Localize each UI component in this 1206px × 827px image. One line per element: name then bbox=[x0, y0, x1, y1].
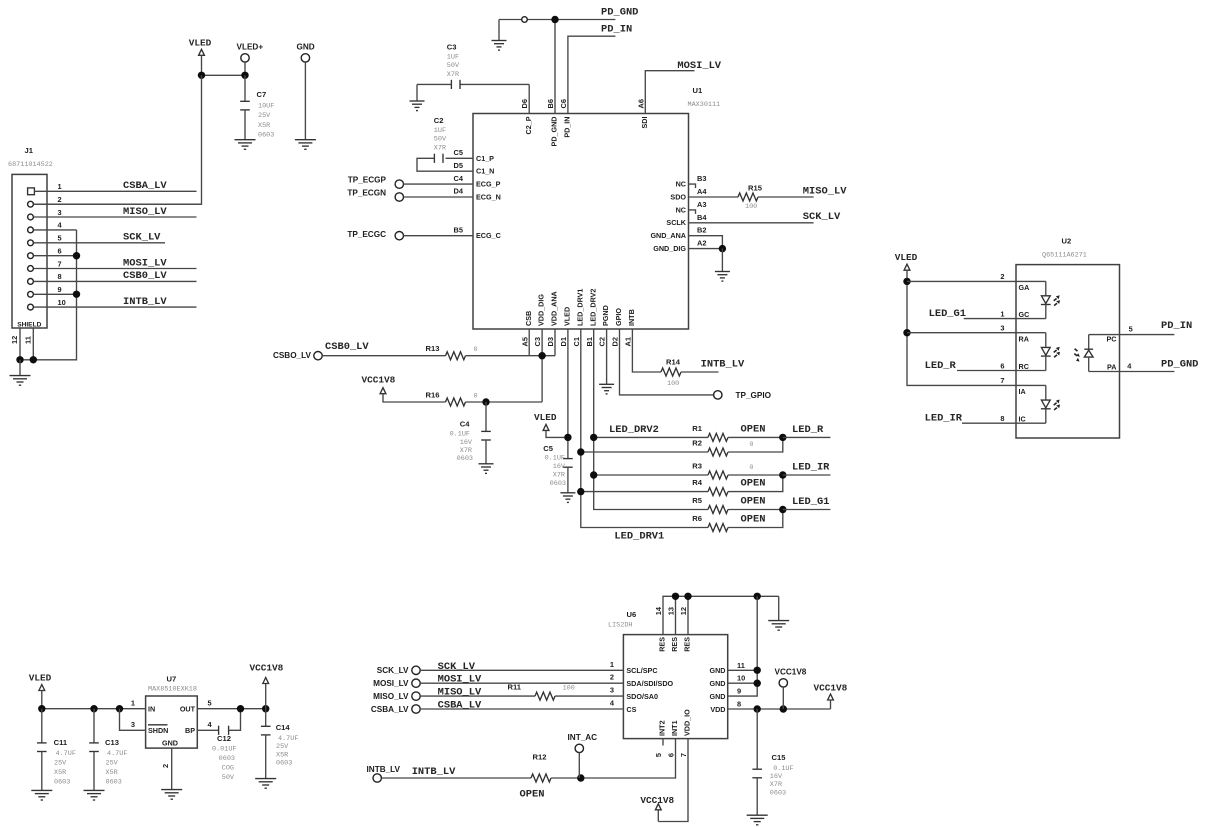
resistor R2 bbox=[708, 448, 728, 456]
junction (gnd bus top) bbox=[754, 593, 761, 600]
svg-text:C1_P: C1_P bbox=[476, 154, 494, 163]
svg-text:2: 2 bbox=[610, 673, 614, 682]
svg-text:VLED: VLED bbox=[534, 412, 557, 423]
capacitor C12 bbox=[218, 726, 220, 735]
svg-text:SDO/SA0: SDO/SA0 bbox=[626, 692, 658, 701]
wire pin6 INT1 bbox=[581, 739, 676, 778]
wire J1 pin7 MOSI_LV bbox=[34, 268, 197, 270]
svg-text:3: 3 bbox=[610, 686, 614, 695]
wire J1 pin4 to gnd bus bbox=[34, 229, 77, 231]
pin stub C3 vert bbox=[541, 329, 543, 402]
svg-text:SDO: SDO bbox=[670, 192, 686, 201]
svg-text:50V: 50V bbox=[434, 136, 447, 144]
wire R12 to INT1 bbox=[551, 777, 581, 779]
svg-text:C3: C3 bbox=[533, 337, 542, 346]
svg-text:C15: C15 bbox=[772, 753, 787, 762]
power symbol VLED (top) bbox=[199, 49, 205, 55]
wire pin11 GND bbox=[728, 669, 758, 671]
pin stub A5 bbox=[528, 329, 530, 356]
svg-text:MISO_LV: MISO_LV bbox=[123, 206, 167, 218]
junction (VLED+/C7) bbox=[241, 72, 248, 79]
svg-text:50V: 50V bbox=[447, 62, 460, 70]
ground (PGND) bbox=[599, 384, 614, 394]
regulator U7 body bbox=[146, 696, 198, 748]
gnd bus vertical (U6) bbox=[728, 596, 758, 696]
wire R3 row bbox=[594, 474, 708, 476]
wire R5 out bbox=[728, 509, 783, 511]
wire R2 out bbox=[728, 437, 783, 452]
wire R15 MISO_LV bbox=[758, 196, 814, 198]
svg-text:VLED: VLED bbox=[29, 672, 52, 683]
svg-text:TP_ECGP: TP_ECGP bbox=[348, 176, 387, 185]
svg-text:8: 8 bbox=[1000, 414, 1004, 423]
svg-text:C11: C11 bbox=[54, 738, 68, 747]
wire J1 pin9 to gnd bus bbox=[34, 293, 77, 295]
svg-text:LED_IR: LED_IR bbox=[792, 461, 830, 473]
wire U6 pin13 bbox=[675, 596, 677, 634]
svg-text:OUT: OUT bbox=[180, 705, 196, 714]
svg-text:16V: 16V bbox=[460, 439, 473, 447]
svg-text:0603: 0603 bbox=[258, 131, 274, 139]
svg-text:OPEN: OPEN bbox=[520, 789, 545, 801]
svg-text:VCC1V8: VCC1V8 bbox=[775, 668, 807, 677]
wire U1 pin C6 PD_IN bbox=[568, 36, 616, 113]
svg-text:R13: R13 bbox=[426, 344, 440, 353]
svg-text:R12: R12 bbox=[533, 752, 547, 761]
junction (pin12) bbox=[684, 593, 691, 600]
svg-text:U2: U2 bbox=[1062, 237, 1072, 246]
svg-text:2: 2 bbox=[161, 764, 170, 768]
junction (C14/VCC) bbox=[262, 705, 269, 712]
ground (GND terminal) bbox=[295, 140, 316, 150]
svg-text:VLED: VLED bbox=[895, 252, 918, 263]
svg-text:C13: C13 bbox=[105, 738, 119, 747]
svg-text:LIS2DH: LIS2DH bbox=[608, 621, 632, 629]
wire CSBO to R13 bbox=[322, 355, 445, 357]
svg-text:C2_P: C2_P bbox=[524, 116, 533, 134]
svg-text:MISO_LV: MISO_LV bbox=[438, 687, 482, 699]
svg-text:PD_GND: PD_GND bbox=[550, 117, 559, 147]
svg-text:IN: IN bbox=[148, 705, 155, 714]
svg-text:GND_ANA: GND_ANA bbox=[650, 231, 686, 240]
svg-text:7: 7 bbox=[679, 753, 688, 757]
svg-text:OPEN: OPEN bbox=[741, 478, 766, 490]
svg-text:25V: 25V bbox=[258, 112, 271, 120]
svg-text:0: 0 bbox=[474, 392, 478, 400]
svg-text:4.7UF: 4.7UF bbox=[107, 750, 127, 758]
svg-text:TP_GPIO: TP_GPIO bbox=[736, 391, 772, 400]
wire J1 pin5 SCK_LV bbox=[34, 242, 166, 244]
wire U6 pin12 bbox=[687, 596, 689, 634]
svg-text:3: 3 bbox=[131, 720, 135, 729]
wire R11 to pin3 bbox=[555, 695, 623, 697]
resistor R13 bbox=[446, 352, 466, 360]
svg-text:GND: GND bbox=[162, 738, 178, 747]
wire shield to ground bbox=[19, 360, 21, 376]
svg-text:11: 11 bbox=[23, 336, 32, 344]
svg-text:PD_IN: PD_IN bbox=[601, 24, 632, 36]
svg-text:C4: C4 bbox=[460, 420, 470, 429]
wire R2 row bbox=[581, 451, 708, 453]
svg-text:0603: 0603 bbox=[106, 779, 122, 787]
resistor R12 bbox=[531, 774, 551, 782]
svg-text:COG: COG bbox=[222, 764, 234, 772]
wire U6 pin14 bbox=[663, 596, 779, 634]
junction (VLED/GA) bbox=[903, 278, 910, 285]
svg-text:NC: NC bbox=[676, 205, 686, 214]
terminal INT_AC bbox=[575, 744, 583, 752]
svg-text:5: 5 bbox=[654, 753, 663, 757]
svg-text:10: 10 bbox=[58, 298, 66, 307]
svg-text:SHDN: SHDN bbox=[148, 726, 168, 735]
wire J1 pin10 INTB_LV bbox=[34, 306, 197, 308]
svg-text:IA: IA bbox=[1019, 387, 1026, 396]
svg-text:0: 0 bbox=[474, 346, 478, 354]
svg-text:INTB_LV: INTB_LV bbox=[367, 765, 401, 774]
junction (VLED/arrow) bbox=[198, 72, 205, 79]
svg-text:B3: B3 bbox=[697, 174, 706, 183]
svg-text:A4: A4 bbox=[697, 187, 707, 196]
svg-text:X7R: X7R bbox=[434, 144, 446, 152]
junction (A2 gnd) bbox=[719, 245, 726, 252]
junction (C4 tap) bbox=[482, 398, 489, 405]
J1 pin 1 square pad bbox=[28, 188, 35, 195]
svg-text:RA: RA bbox=[1019, 334, 1029, 343]
wire LED_R bbox=[783, 436, 831, 438]
svg-text:D3: D3 bbox=[546, 337, 555, 346]
svg-text:6: 6 bbox=[667, 753, 676, 757]
wire GND_DIG A2 bbox=[689, 248, 723, 250]
svg-text:GND: GND bbox=[710, 692, 726, 701]
svg-text:RC: RC bbox=[1019, 362, 1029, 371]
svg-text:CSBO_LV: CSBO_LV bbox=[273, 351, 312, 360]
svg-text:X5R: X5R bbox=[258, 122, 270, 130]
junction (VLED/RA) bbox=[903, 329, 910, 336]
pin stub NC A3 bbox=[689, 210, 696, 214]
terminal VCC1V8 (U6) bbox=[779, 679, 787, 687]
power symbol VLED (U7) bbox=[39, 685, 45, 691]
ground (PD_GND) bbox=[492, 41, 507, 51]
svg-text:INTB_LV: INTB_LV bbox=[123, 296, 167, 308]
svg-text:BP: BP bbox=[185, 726, 195, 735]
power symbol VLED (U2) bbox=[904, 264, 910, 270]
svg-text:CSBA_LV: CSBA_LV bbox=[438, 700, 482, 712]
wire U1 pin B6 (PD_GND) bbox=[554, 20, 556, 114]
svg-text:U1: U1 bbox=[693, 86, 703, 95]
svg-text:R4: R4 bbox=[692, 478, 702, 487]
svg-text:0.1UF: 0.1UF bbox=[545, 455, 565, 463]
J1 pin pads 2-10 bbox=[28, 201, 34, 207]
terminal TP_GPIO bbox=[714, 391, 722, 399]
capacitor C3 bbox=[460, 83, 529, 85]
junction (pin11) bbox=[754, 667, 761, 674]
svg-text:2: 2 bbox=[58, 195, 62, 204]
junction (VCC term) bbox=[780, 705, 787, 712]
ground (U6 top) bbox=[768, 621, 789, 631]
wire BP to C12 bbox=[197, 729, 218, 731]
power symbol VLED (C5) bbox=[543, 424, 549, 430]
resistor R1 bbox=[708, 433, 728, 441]
svg-text:INT_AC: INT_AC bbox=[568, 733, 598, 742]
svg-text:VDD_ANA: VDD_ANA bbox=[550, 291, 559, 326]
svg-text:SCK_LV: SCK_LV bbox=[123, 232, 161, 244]
ground (C5) bbox=[560, 493, 575, 503]
svg-text:SDI: SDI bbox=[640, 116, 649, 128]
svg-text:4.7UF: 4.7UF bbox=[56, 750, 76, 758]
svg-text:B1: B1 bbox=[585, 337, 594, 346]
svg-text:9: 9 bbox=[58, 285, 62, 294]
power symbol VCC1V8 (U6) bbox=[828, 694, 834, 700]
svg-text:B4: B4 bbox=[697, 213, 707, 222]
wire PD_GND net bbox=[499, 19, 522, 21]
svg-text:6: 6 bbox=[58, 246, 62, 255]
wire GA pin2 bbox=[907, 280, 1046, 282]
svg-text:MISO_LV: MISO_LV bbox=[803, 185, 847, 197]
wire U1 pin D6 (C2_P) bbox=[528, 84, 530, 113]
svg-text:1: 1 bbox=[610, 660, 614, 669]
svg-text:0603: 0603 bbox=[219, 755, 235, 763]
svg-text:1: 1 bbox=[1000, 309, 1004, 318]
junction (B1/R1) bbox=[590, 434, 597, 441]
svg-text:X7R: X7R bbox=[447, 71, 459, 79]
junction (pin13) bbox=[672, 593, 679, 600]
junction (LED_IR) bbox=[779, 471, 786, 478]
svg-text:C1: C1 bbox=[572, 337, 581, 346]
ground (C15) bbox=[747, 815, 768, 825]
wire R3 out bbox=[728, 474, 783, 476]
svg-text:LED_R: LED_R bbox=[925, 360, 957, 372]
svg-text:CSBA_LV: CSBA_LV bbox=[371, 705, 409, 714]
svg-text:68711014522: 68711014522 bbox=[8, 161, 53, 169]
LED green (GA/GC) bbox=[1045, 281, 1047, 295]
terminal GND bbox=[301, 54, 309, 62]
svg-text:25V: 25V bbox=[106, 760, 119, 768]
svg-text:IC: IC bbox=[1019, 414, 1026, 423]
svg-text:MISO_LV: MISO_LV bbox=[373, 692, 409, 701]
svg-text:GPIO: GPIO bbox=[614, 308, 623, 326]
svg-text:SHIELD: SHIELD bbox=[17, 321, 41, 328]
svg-text:X5R: X5R bbox=[276, 751, 288, 759]
svg-text:CSB: CSB bbox=[524, 311, 533, 326]
svg-text:1UF: 1UF bbox=[447, 53, 459, 61]
svg-text:1: 1 bbox=[58, 182, 62, 191]
svg-text:5: 5 bbox=[58, 234, 62, 243]
svg-text:RES: RES bbox=[670, 637, 679, 652]
svg-text:MAX30111: MAX30111 bbox=[688, 101, 721, 109]
wire RC pin6 LED_R bbox=[957, 370, 1046, 372]
svg-text:VCC1V8: VCC1V8 bbox=[250, 662, 284, 673]
wire LED_DRV1 vert (C1) bbox=[581, 329, 708, 528]
junction (C13) bbox=[90, 705, 97, 712]
svg-text:TP_ECGC: TP_ECGC bbox=[347, 230, 386, 239]
svg-text:B6: B6 bbox=[546, 99, 555, 108]
svg-text:100: 100 bbox=[745, 203, 757, 211]
svg-text:LED_G1: LED_G1 bbox=[792, 496, 829, 508]
svg-text:1UF: 1UF bbox=[434, 127, 446, 135]
svg-text:GA: GA bbox=[1019, 283, 1030, 292]
svg-text:OPEN: OPEN bbox=[741, 496, 766, 508]
resistor R15 bbox=[738, 193, 758, 201]
svg-text:R1: R1 bbox=[692, 424, 702, 433]
svg-text:ECG_P: ECG_P bbox=[476, 180, 501, 189]
junction (C11) bbox=[38, 705, 45, 712]
wire IC pin8 LED_IR bbox=[962, 422, 1046, 424]
wire R4 row bbox=[581, 491, 708, 493]
svg-text:10UF: 10UF bbox=[258, 103, 274, 111]
resistor R14 bbox=[661, 368, 681, 376]
svg-text:R16: R16 bbox=[426, 390, 440, 399]
wire J1 pin2 to VLED bbox=[34, 203, 202, 205]
svg-text:R15: R15 bbox=[748, 183, 763, 192]
capacitor C11 bbox=[41, 709, 43, 743]
svg-text:ECG_C: ECG_C bbox=[476, 231, 501, 240]
LED infrared (IA/IC) bbox=[1045, 385, 1047, 400]
svg-text:X7R: X7R bbox=[460, 447, 472, 455]
svg-text:GC: GC bbox=[1019, 310, 1030, 319]
svg-text:C5: C5 bbox=[543, 444, 553, 453]
svg-text:5: 5 bbox=[208, 698, 212, 707]
svg-text:100: 100 bbox=[563, 685, 575, 693]
wire SDO to R15 bbox=[689, 196, 739, 198]
svg-text:B5: B5 bbox=[454, 225, 463, 234]
wire OUT bbox=[197, 708, 265, 710]
svg-text:TP_ECGN: TP_ECGN bbox=[347, 188, 386, 197]
svg-text:16V: 16V bbox=[553, 463, 566, 471]
junction (shield 12) bbox=[16, 356, 23, 363]
svg-text:C2: C2 bbox=[434, 116, 444, 125]
wire GND_ANA B2 bbox=[689, 236, 723, 249]
svg-text:8: 8 bbox=[737, 700, 741, 709]
svg-text:A1: A1 bbox=[624, 337, 633, 346]
svg-text:16V: 16V bbox=[770, 773, 783, 781]
pin stub D3 bbox=[554, 329, 556, 356]
svg-text:LED_G1: LED_G1 bbox=[929, 308, 966, 320]
svg-text:Q65111A6271: Q65111A6271 bbox=[1042, 252, 1087, 260]
svg-text:9: 9 bbox=[737, 687, 741, 696]
svg-text:VCC1V8: VCC1V8 bbox=[640, 795, 674, 806]
svg-text:LED_DRV2: LED_DRV2 bbox=[609, 424, 659, 436]
svg-text:R3: R3 bbox=[692, 462, 702, 471]
svg-text:X7R: X7R bbox=[553, 472, 565, 480]
wire J1 pin8 CSB0_LV bbox=[34, 280, 197, 282]
wire PA pin4 PD_GND bbox=[1089, 371, 1175, 373]
svg-text:VCC1V8: VCC1V8 bbox=[362, 374, 396, 385]
wire R14 INTB_LV bbox=[681, 371, 719, 373]
svg-text:0.1UF: 0.1UF bbox=[450, 430, 470, 438]
svg-text:PA: PA bbox=[1107, 362, 1116, 371]
wire J1 pin1 CSBA_LV bbox=[34, 190, 196, 192]
wire top bus to ground bbox=[778, 596, 780, 620]
svg-text:PD_IN: PD_IN bbox=[1161, 320, 1192, 332]
wire VLED rail to IN bbox=[42, 708, 146, 710]
junction (BP riser) bbox=[237, 705, 244, 712]
svg-text:PC: PC bbox=[1107, 334, 1117, 343]
wire J1 pin3 MISO_LV bbox=[34, 216, 197, 218]
svg-text:INT1: INT1 bbox=[670, 720, 679, 736]
svg-text:100: 100 bbox=[667, 380, 679, 388]
ground (U7 GND) bbox=[161, 790, 182, 800]
svg-text:0: 0 bbox=[749, 441, 753, 449]
svg-text:VDD: VDD bbox=[710, 705, 725, 714]
svg-text:U7: U7 bbox=[167, 675, 177, 684]
wire U1 A1 INTB bbox=[632, 329, 661, 372]
svg-text:X7R: X7R bbox=[770, 781, 782, 789]
svg-text:VCC1V8: VCC1V8 bbox=[814, 682, 848, 693]
resistor R3 bbox=[708, 471, 728, 479]
resistor R6 bbox=[708, 524, 728, 532]
svg-text:J1: J1 bbox=[25, 146, 34, 155]
wire R1 out bbox=[728, 436, 783, 438]
svg-text:MOSI_LV: MOSI_LV bbox=[438, 674, 482, 686]
svg-text:VDD_DIG: VDD_DIG bbox=[537, 294, 546, 326]
svg-text:R6: R6 bbox=[692, 514, 702, 523]
svg-text:SCLK: SCLK bbox=[666, 218, 686, 227]
svg-text:LED_DRV2: LED_DRV2 bbox=[588, 289, 597, 326]
svg-text:8: 8 bbox=[58, 272, 62, 281]
junction (pin10) bbox=[754, 680, 761, 687]
power symbol VCC1V8 (R16) bbox=[380, 388, 386, 394]
svg-text:D2: D2 bbox=[611, 337, 620, 346]
connector J1 body bbox=[12, 174, 47, 328]
svg-text:OPEN: OPEN bbox=[741, 514, 766, 526]
svg-text:INTB: INTB bbox=[627, 309, 636, 326]
wire LED_DRV2 vert (B1) bbox=[594, 329, 708, 510]
svg-text:0603: 0603 bbox=[457, 455, 473, 463]
capacitor C14 bbox=[265, 709, 267, 727]
svg-text:0: 0 bbox=[749, 464, 753, 472]
op-chip U1 body bbox=[473, 114, 689, 330]
svg-text:D5: D5 bbox=[454, 161, 463, 170]
junction (INT_AC) bbox=[577, 774, 584, 781]
ground (U1 A2) bbox=[715, 272, 730, 282]
svg-text:A6: A6 bbox=[636, 99, 645, 108]
junction (VLED/C5) bbox=[564, 434, 571, 441]
svg-text:PD_IN: PD_IN bbox=[563, 117, 572, 138]
svg-text:R5: R5 bbox=[692, 496, 702, 505]
LED red (RA/RC) bbox=[1045, 333, 1047, 348]
svg-text:INTB_LV: INTB_LV bbox=[412, 766, 456, 778]
svg-text:CSB0_LV: CSB0_LV bbox=[325, 341, 369, 353]
svg-text:0603: 0603 bbox=[276, 759, 292, 767]
svg-text:13: 13 bbox=[667, 607, 676, 615]
svg-text:5: 5 bbox=[1129, 325, 1133, 334]
terminal VLED+ bbox=[241, 54, 249, 62]
svg-text:10: 10 bbox=[737, 674, 745, 683]
svg-text:PD_GND: PD_GND bbox=[601, 6, 638, 18]
pin stub 5 INT2 bbox=[662, 739, 664, 746]
ground (C7) bbox=[235, 140, 256, 150]
svg-text:7: 7 bbox=[1000, 376, 1004, 385]
svg-text:NC: NC bbox=[676, 180, 686, 189]
svg-text:B2: B2 bbox=[697, 226, 706, 235]
wire pin7 VDD_IO bbox=[658, 739, 688, 822]
wire GC pin1 LED_G1 bbox=[964, 318, 1046, 320]
svg-text:INTB_LV: INTB_LV bbox=[701, 359, 745, 371]
ground (C14) bbox=[255, 779, 276, 789]
photodiode (PC/PA) bbox=[1088, 335, 1090, 350]
svg-text:VLED+: VLED+ bbox=[237, 43, 264, 52]
svg-text:MOSI_LV: MOSI_LV bbox=[373, 679, 409, 688]
wire LED_G1 bbox=[783, 509, 831, 511]
capacitor C4 bbox=[485, 402, 487, 431]
svg-text:C12: C12 bbox=[217, 734, 231, 743]
wire C3 to ground bbox=[416, 84, 418, 101]
svg-text:R14: R14 bbox=[666, 357, 681, 366]
resistor R4 bbox=[708, 488, 728, 496]
svg-text:0603: 0603 bbox=[770, 789, 786, 797]
svg-text:C1_N: C1_N bbox=[476, 167, 494, 176]
opto U2 body bbox=[1016, 265, 1120, 438]
